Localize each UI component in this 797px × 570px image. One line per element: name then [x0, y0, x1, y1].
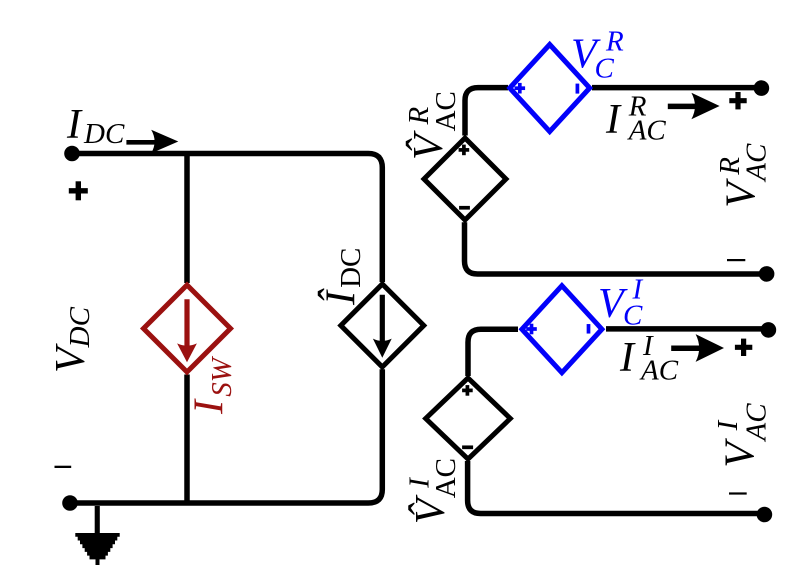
svg-text:AC: AC — [741, 403, 773, 443]
wire lower-right bottom — [468, 461, 765, 514]
minus sign left — [55, 466, 72, 468]
svg-text:I: I — [712, 419, 744, 431]
wire bottom-left horizontal from Idc-hat source — [70, 369, 382, 503]
label I_SW (rotated, red) — [187, 355, 239, 415]
svg-text:C: C — [623, 300, 643, 332]
controlled source V_C-R (blue diamond upper) — [510, 45, 590, 132]
wire red-source bottom branch — [184, 375, 190, 504]
arrow I_AC-R — [668, 93, 720, 120]
svg-text:I: I — [605, 97, 622, 143]
svg-text:V̂: V̂ — [405, 130, 452, 160]
wire red-source top branch — [184, 154, 190, 284]
controlled source V_C-I (blue diamond lower) — [522, 286, 602, 373]
label I_DC — [66, 102, 125, 150]
node dot lower-right top — [761, 322, 777, 338]
svg-text:AC: AC — [627, 115, 667, 147]
svg-text:SW: SW — [206, 355, 238, 397]
svg-text:AC: AC — [741, 143, 773, 183]
current source I_DC-hat (black diamond) — [341, 284, 424, 367]
wire top-left horizontal to Idc-hat branch — [72, 154, 382, 283]
arrow I_DC — [126, 130, 178, 153]
svg-text:I: I — [66, 102, 83, 148]
label V_DC (rotated) — [48, 306, 96, 373]
voltage source V_AC-hat-I (black diamond lower) — [426, 378, 511, 459]
current source I_SW (red diamond) — [144, 285, 231, 372]
wire upper-right source to blue source — [465, 88, 508, 136]
svg-text:I: I — [619, 335, 636, 381]
label V-hat-I-AC (rotated) — [403, 458, 462, 524]
label V-hat-R-AC (rotated) — [403, 91, 462, 160]
minus sign lower-right — [729, 492, 747, 494]
wire lower-right top to terminal — [606, 326, 768, 332]
svg-text:DC: DC — [83, 118, 125, 150]
svg-text:AC: AC — [430, 458, 462, 498]
svg-text:V: V — [719, 178, 765, 208]
svg-text:AC: AC — [639, 355, 679, 387]
plus sign left — [69, 181, 88, 200]
wire upper-right bottom — [465, 222, 767, 274]
svg-text:I: I — [187, 398, 233, 415]
svg-text:DC: DC — [335, 248, 367, 288]
label V_C-I (blue) — [598, 274, 644, 332]
ground — [75, 506, 119, 565]
node dot upper-right top — [754, 80, 770, 96]
plus sign lower-right — [735, 339, 752, 356]
svg-text:C: C — [595, 53, 615, 85]
label V_C-R (blue) — [571, 25, 624, 84]
wire upper-right top to terminal — [592, 85, 761, 91]
minus sign upper-right — [727, 259, 745, 261]
node dot top-left — [64, 146, 80, 162]
label I_AC-I — [619, 330, 679, 387]
wire lower-right source to blue source — [468, 329, 518, 376]
arrow I_AC-I — [671, 334, 724, 362]
node dot lower-right bottom — [757, 507, 773, 523]
svg-text:V: V — [718, 438, 764, 468]
node dot upper-right bottom — [759, 266, 775, 282]
label I_DC-hat (rotated) — [318, 248, 368, 306]
svg-text:AC: AC — [430, 91, 462, 131]
label V_AC-I (rotated) — [712, 403, 773, 468]
plus sign upper-right — [729, 92, 746, 109]
voltage source V_AC-hat-R (black diamond upper) — [424, 138, 506, 220]
node dot bottom-left — [62, 495, 78, 511]
label V_AC-R (rotated) — [714, 143, 773, 208]
label I_AC-R — [605, 91, 666, 147]
